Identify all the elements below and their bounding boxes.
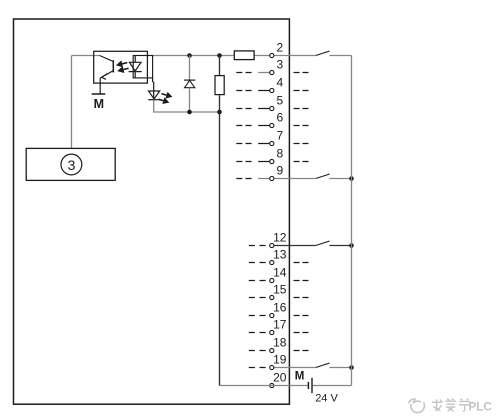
svg-text:8: 8 (276, 146, 283, 160)
svg-text:19: 19 (273, 352, 287, 366)
svg-text:6: 6 (276, 110, 283, 124)
svg-text:12: 12 (273, 230, 287, 244)
svg-text:2: 2 (276, 40, 283, 54)
svg-text:24 V: 24 V (315, 393, 338, 405)
svg-text:15: 15 (273, 282, 287, 296)
svg-text:14: 14 (273, 265, 287, 279)
svg-text:13: 13 (273, 247, 287, 261)
svg-text:3: 3 (276, 57, 283, 71)
svg-text:17: 17 (273, 317, 287, 331)
svg-text:M: M (94, 97, 104, 111)
svg-text:20: 20 (273, 370, 287, 384)
svg-text:9: 9 (276, 163, 283, 177)
svg-text:M: M (295, 371, 305, 383)
svg-text:PLC: PLC (469, 400, 493, 413)
svg-text:7: 7 (276, 128, 283, 142)
svg-text:3: 3 (67, 158, 75, 174)
svg-text:5: 5 (276, 93, 283, 107)
svg-text:4: 4 (276, 75, 283, 89)
svg-text:16: 16 (273, 300, 287, 314)
svg-text:18: 18 (273, 335, 287, 349)
